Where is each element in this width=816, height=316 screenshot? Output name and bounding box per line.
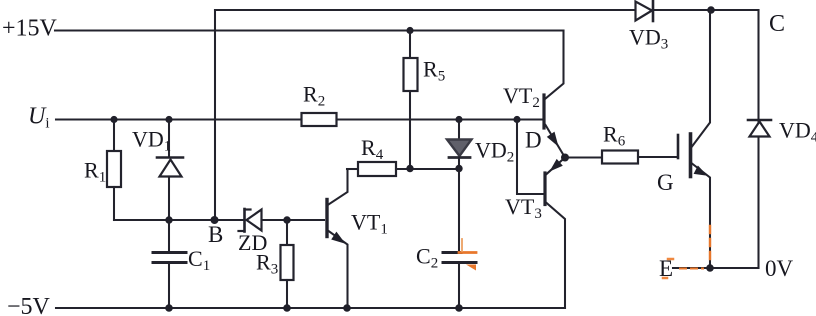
resistor R2 [302,113,337,126]
diode VD1 [157,120,183,221]
svg-text:+15V: +15V [2,16,58,42]
resistor R5 [404,31,418,169]
node junction top rail / IGBT collector [707,6,715,14]
orange scan artifact on E wire [680,268,703,270]
zener diode ZD [239,209,325,232]
node junction Ui / R1 [110,116,117,123]
resistor R1 [107,120,121,221]
node junction R4 / R5 [406,165,413,172]
node junction B / C1 / VD1 [165,216,172,223]
wire -5V rail [56,307,565,309]
diode VD3 [636,1,654,22]
node junction E / IGBT emitter [706,264,714,272]
node junction Ui / VD2 anode [455,116,462,123]
transistor VT1 [327,169,348,308]
node junction emitters / R6 [561,154,569,162]
orange scan artifact near label E [663,259,673,278]
wire +15V rail [55,29,564,31]
svg-text:D: D [525,128,542,153]
svg-text:E: E [659,256,673,281]
wire top rail right segment [653,9,759,11]
node junction -5V / VT1 emitter [343,304,351,312]
capacitor C1 [153,220,186,308]
transistor VT2 [544,31,565,158]
svg-text:−5V: −5V [7,294,51,316]
diode VD2 [447,120,472,169]
svg-text:VD4: VD4 [779,118,816,146]
node junction ZD / R3 / VT1 base [283,216,290,223]
node B [211,216,219,224]
node junction Ui / VT2-VT3 base tie [513,116,520,123]
resistor R4 [347,162,459,176]
wire right edge vertical (C to 0V) [757,10,759,268]
capacitor C2 [443,169,476,309]
node junction Ui / VD1 [165,116,172,123]
wire Ui line right to VT2 base [337,118,543,120]
resistor R6 [565,151,677,164]
node junction -5V / C1 [165,304,173,312]
svg-text:G: G [657,170,674,195]
wire node E horizontal [673,267,759,269]
node junction VD2 cathode / R4 / C2 [455,165,462,172]
IGBT VT (G C E) [678,10,710,268]
svg-text:C: C [769,11,785,37]
wire Ui line left [56,118,302,120]
node junction -5V / R3 [283,304,291,312]
svg-text:0V: 0V [765,256,794,281]
diode VD4 [748,120,771,137]
resistor R3 [281,220,294,308]
wire top rail left segment [215,9,636,11]
node junction +15V / R5 [406,27,413,34]
transistor VT3 [545,158,565,309]
node junction -5V / C2 [455,304,463,312]
svg-text:B: B [208,222,223,247]
wire node B horizontal [114,219,244,221]
orange scan artifact on IGBT emitter wire [709,226,711,264]
wire vertical bus from top rail to node B [214,10,216,220]
wire VT2/VT3 common base tie [517,120,544,195]
